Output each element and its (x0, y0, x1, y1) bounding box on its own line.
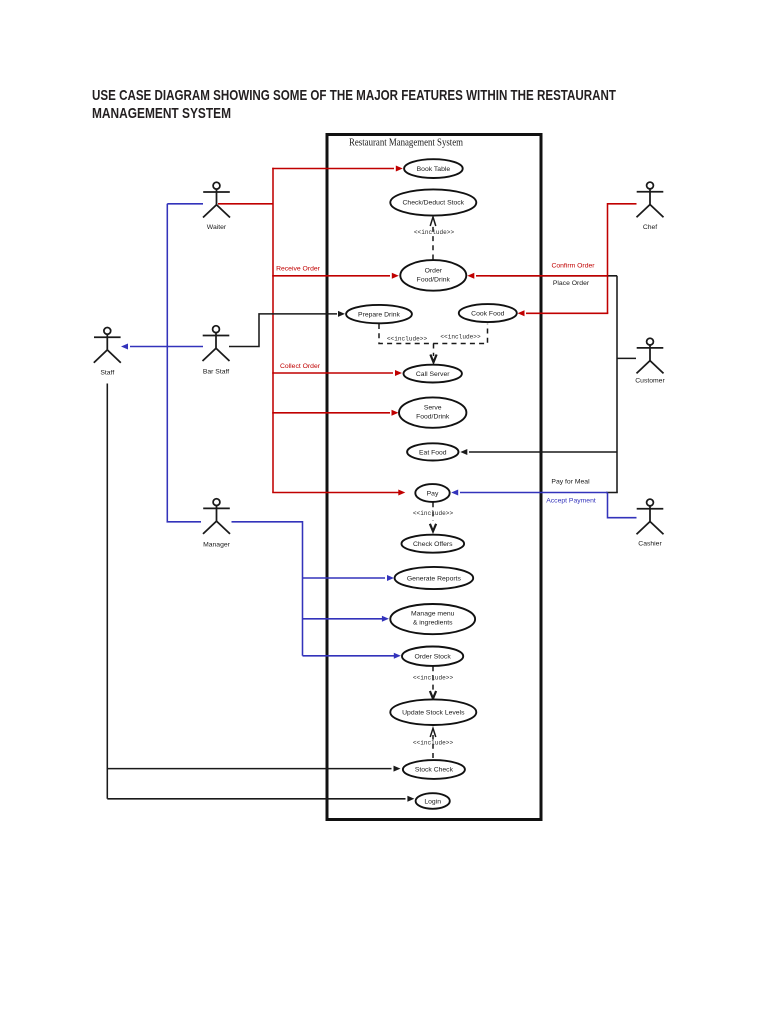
svg-text:Food/Drink: Food/Drink (416, 414, 450, 421)
usecase Call Server (404, 365, 462, 383)
wire black to Stock Check (107, 766, 400, 772)
usecase Prepare Drink (346, 305, 412, 323)
wire blue cashier elbow (608, 493, 637, 518)
svg-text:Cashier: Cashier (638, 540, 662, 547)
usecase Order Food/Drink (400, 260, 466, 291)
svg-text:Stock Check: Stock Check (415, 766, 454, 773)
svg-text:MANAGEMENT SYSTEM: MANAGEMENT SYSTEM (92, 106, 231, 122)
usecase Update Stock Levels (390, 699, 476, 725)
svg-text:Bar Staff: Bar Staff (203, 368, 229, 375)
svg-text:Check Offers: Check Offers (413, 541, 453, 548)
wire black to Eat Food (460, 449, 617, 455)
actor Bar Staff (203, 326, 230, 361)
svg-text:Chef: Chef (643, 224, 657, 231)
usecase Manage menu & ingredients (390, 604, 475, 634)
svg-text:<<include>>: <<include>> (414, 229, 455, 236)
wire blue waiter left arm (167, 203, 203, 205)
wire black to Login (107, 796, 414, 802)
svg-text:Restaurant Management System: Restaurant Management System (349, 138, 463, 149)
svg-text:& ingredients: & ingredients (413, 620, 453, 627)
usecase Book Table (404, 159, 463, 178)
wire black place order (under red) (490, 275, 617, 277)
include Pay to Check Offers (430, 502, 436, 531)
wire blue vertical waiter-manager (166, 204, 168, 522)
svg-text:USE CASE DIAGRAM SHOWING SOME: USE CASE DIAGRAM SHOWING SOME OF THE MAJ… (92, 88, 616, 104)
wire black customer vertical (616, 276, 618, 493)
usecase Cook Food (459, 304, 517, 322)
svg-text:Pay: Pay (427, 490, 439, 497)
wire blue manager left arm (167, 521, 202, 523)
actor Manager (203, 499, 230, 534)
svg-text:Book Table: Book Table (417, 166, 451, 173)
svg-text:Update Stock Levels: Update Stock Levels (402, 710, 465, 717)
svg-text:Manage menu: Manage menu (411, 611, 455, 618)
wire red to Cook Food (518, 310, 609, 316)
svg-text:Staff: Staff (100, 369, 114, 376)
svg-text:Pay for Meal: Pay for Meal (551, 479, 590, 486)
usecase Check Offers (402, 535, 465, 553)
svg-text:<<include>>: <<include>> (413, 674, 454, 681)
svg-text:<<include>>: <<include>> (413, 510, 454, 517)
usecase Check/Deduct Stock (390, 189, 476, 215)
svg-text:Customer: Customer (635, 377, 665, 384)
actor Cashier (637, 499, 664, 534)
wire blue manager bus (232, 522, 303, 656)
svg-text:Generate Reports: Generate Reports (407, 575, 462, 582)
actor Chef (637, 182, 664, 217)
wire red to Book Table (272, 166, 403, 172)
svg-text:Check/Deduct Stock: Check/Deduct Stock (403, 200, 465, 207)
actor Customer (637, 338, 664, 373)
svg-text:Cook Food: Cook Food (471, 311, 504, 318)
svg-text:Order: Order (425, 268, 443, 275)
include Order Stock to Update Stock Levels (430, 666, 436, 698)
usecase Login (416, 793, 450, 809)
svg-text:Order Stock: Order Stock (414, 654, 451, 661)
svg-text:Eat Food: Eat Food (419, 449, 447, 456)
wire blue barstaff to staff arrow (121, 344, 203, 350)
include OrderFood to CheckDeductStock (430, 217, 436, 260)
usecase Stock Check (403, 760, 465, 779)
wire blue to Pay (451, 490, 607, 496)
title text (92, 88, 616, 122)
svg-text:Manager: Manager (203, 541, 231, 548)
svg-text:<<include>>: <<include>> (413, 740, 454, 747)
wire black staff vertical (106, 384, 108, 799)
wire red to Serve Food/Drink (272, 410, 398, 416)
wire red waiter arm (218, 203, 273, 205)
wire red vertical bus (272, 168, 274, 493)
wire red to Pay (272, 490, 405, 496)
actor Staff (94, 328, 121, 363)
wire black customer to pay joint (606, 492, 618, 494)
system boundary rectangle (327, 135, 541, 820)
svg-text:Serve: Serve (424, 405, 442, 412)
svg-text:Collect Order: Collect Order (280, 363, 321, 370)
svg-text:Waiter: Waiter (207, 224, 227, 231)
usecase Generate Reports (395, 567, 474, 589)
svg-text:Receive Order: Receive Order (276, 266, 321, 273)
wire blue to Generate Reports (303, 575, 395, 581)
wire red chef arm (608, 204, 637, 313)
usecase Serve Food/Drink (399, 397, 466, 427)
wire blue to Manage menu (303, 616, 389, 622)
svg-text:Login: Login (424, 798, 441, 805)
svg-text:Confirm Order: Confirm Order (551, 262, 595, 269)
wire red to Order Food/Drink (272, 273, 399, 279)
include Stock Check to Update Stock Levels (430, 728, 436, 758)
svg-text:<<include>>: <<include>> (440, 333, 481, 340)
include PrepareDrink/CookFood bracket to Call Server (379, 324, 488, 363)
wire blue to Order Stock (303, 653, 401, 659)
usecase Order Stock (402, 647, 463, 666)
wire red confirm order to Order Food/Drink (467, 273, 608, 279)
wire black customer arm (617, 357, 636, 359)
svg-text:Call Server: Call Server (416, 371, 450, 378)
svg-text:Accept Payment: Accept Payment (546, 497, 596, 504)
svg-text:Food/Drink: Food/Drink (417, 277, 451, 284)
svg-text:Place Order: Place Order (553, 280, 590, 287)
usecase Pay (415, 484, 449, 502)
usecase Eat Food (407, 443, 458, 460)
wire red to Call Server (272, 370, 402, 376)
svg-text:<<include>>: <<include>> (387, 336, 428, 343)
wire black barstaff elbow (229, 314, 337, 347)
actor Waiter (203, 182, 230, 217)
svg-text:Prepare Drink: Prepare Drink (358, 311, 401, 318)
